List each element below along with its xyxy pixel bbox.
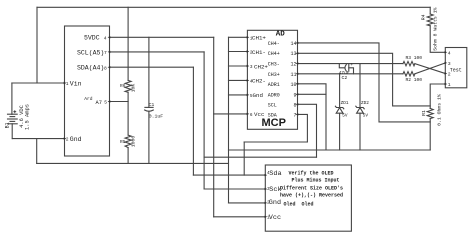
svg-text:10: 10 [291,82,297,88]
wire battery plus lead [11,83,13,114]
svg-text:Verify the OLED: Verify the OLED [289,170,334,176]
svg-text:Oled: Oled [302,202,314,208]
svg-text:R1: R1 [421,110,427,116]
svg-text:5ohm 8 Watts 1%: 5ohm 8 Watts 1% [432,7,438,50]
MCP pin 7 mark [296,113,299,115]
svg-text:5VDC: 5VDC [84,35,100,42]
MCP pin 11 mark [296,73,299,75]
wire CH4- sense [298,43,431,122]
wire Test pin1 to R1 [430,84,445,108]
svg-text:C2: C2 [342,75,348,81]
MCP pin 2 mark [247,50,250,52]
resistor R4 [427,14,433,26]
svg-text:SDA(A4): SDA(A4) [77,65,104,72]
MCP U2 box [247,30,297,129]
svg-text:MCP: MCP [262,117,286,129]
MCP pin 10 mark [296,83,299,85]
MCP pin 9 mark [296,93,299,95]
node labels: Arduino pins [66,35,108,143]
wire MCP pin2 stub [229,51,248,53]
svg-text:Gnd: Gnd [70,136,82,143]
MCP pin 1 mark [247,36,250,38]
svg-text:5: 5 [104,100,107,106]
svg-text:8: 8 [104,65,107,71]
wire C1 bottom lead [148,111,150,163]
node labels: MCP right pins [268,41,297,119]
svg-text:12: 12 [291,61,297,67]
svg-text:2: 2 [66,136,69,142]
MCP pin 12 mark [296,62,299,64]
wire Vin horizontal [12,82,65,84]
zener diode ZD1 [335,74,343,150]
zener diode ZD2 [356,64,364,150]
wire right common rail [229,149,431,151]
svg-text:CH4-: CH4- [268,41,280,47]
svg-text:CH3-: CH3- [268,61,280,67]
svg-text:Different Size OLED's: Different Size OLED's [280,185,343,191]
svg-text:SDA: SDA [268,112,277,118]
wire Vcc to OLED [214,216,266,218]
svg-text:Gnd: Gnd [253,92,263,99]
wire 5V vertical [213,37,215,217]
svg-text:ADR0: ADR0 [268,92,280,98]
svg-text:R3 100: R3 100 [406,55,423,61]
MCP pin 6 mark [247,113,250,115]
OLED pin 3 mark [265,188,268,190]
svg-text:Ard: Ard [84,96,93,102]
wire divider top [127,7,129,80]
wire CH4+ sense [298,53,431,106]
wire battery minus lead [11,124,13,139]
svg-text:Vcc: Vcc [254,111,265,118]
wire sense bundle vertical [228,37,230,203]
wire Gnd to OLED [229,202,266,204]
OLED pin 2 mark [265,202,268,204]
svg-text:13: 13 [291,51,297,57]
wire SCL return [204,156,316,158]
svg-text:10K: 10K [131,84,137,93]
resistor R6 [125,80,131,92]
svg-text:9: 9 [294,92,297,98]
Arduino pin 1 mark [64,82,67,84]
wire MCP SCL pin8 [298,104,317,157]
MCP pin 13 mark [296,52,299,54]
Test pin 3 mark [445,62,448,64]
svg-text:CH1+: CH1+ [252,35,266,42]
resistor R1 [427,108,433,118]
wire MCP ADR0 pin9 [298,93,327,95]
svg-text:AD: AD [276,31,286,39]
wire A7 to divider [110,101,129,103]
svg-text:A7: A7 [96,100,102,106]
svg-text:0.1uF: 0.1uF [149,113,164,119]
svg-text:CH2-: CH2- [252,78,266,85]
svg-text:ZD2: ZD2 [361,101,369,106]
svg-text:3: 3 [250,65,253,70]
svg-text:Plus Minus Input: Plus Minus Input [292,178,340,184]
resistor R2 [403,72,415,76]
svg-text:1000: 1000 [131,136,137,148]
svg-text:3: 3 [448,61,451,67]
resistor R3 [403,61,415,65]
wire SCL(A5) from Arduino pin 7 [110,51,205,53]
svg-text:Oled: Oled [284,202,296,208]
wire R5 to ground rail [127,148,129,164]
wire 5VDC from Arduino pin 4 [110,36,214,38]
svg-text:5V: 5V [363,113,369,118]
svg-text:0.1 Ohms 1%: 0.1 Ohms 1% [437,94,443,126]
MCP pin 3 mark [247,65,250,67]
resistor R5 [125,135,131,148]
svg-text:Vcc: Vcc [269,214,281,222]
MCP pin 14 mark [296,42,299,44]
Arduino pin 2 mark [64,137,67,139]
wire MCP SDA pin7 [298,114,308,142]
svg-text:11: 11 [291,72,297,78]
wire left drop from top rail to Vin node [36,7,38,83]
svg-text:1.5 Amps: 1.5 Amps [24,104,30,130]
OLED pin 4 mark [265,174,268,176]
svg-text:+: + [350,63,353,68]
node labels: OLED pins [267,170,282,222]
svg-text:R2 100: R2 100 [406,77,423,83]
wire MCP pin5 stub [229,94,248,96]
svg-text:SCL: SCL [268,102,277,108]
MCP pin 8 mark [296,103,299,105]
wire R4 to Test pin4 [430,26,445,53]
svg-text:CH2+: CH2+ [254,63,268,70]
node labels: MCP left pins [250,35,269,119]
svg-text:R5: R5 [120,139,126,145]
svg-text:ADR1: ADR1 [268,82,280,88]
svg-text:CH1-: CH1- [252,49,266,56]
Test pin 1 mark [445,83,448,85]
svg-text:ZD1: ZD1 [341,101,349,106]
wire MCP pin1 stub [229,36,248,38]
OLED J2 box [265,165,351,231]
svg-text:8: 8 [294,102,297,108]
wire SDA return [244,141,307,143]
Arduino pin 5 mark [108,100,111,102]
wire SDA vertical [192,67,194,175]
wire SDA(A4) from Arduino pin 8 [110,66,194,68]
svg-text:7: 7 [104,50,107,56]
svg-text:C1: C1 [149,102,155,108]
wire top rail [37,6,430,8]
wire 5V to MCP Vcc [214,113,248,115]
svg-text:have (+),(-) Reversed: have (+),(-) Reversed [280,192,343,198]
Test pin 2 mark [445,72,448,74]
label battery plus [13,110,16,113]
MCP pin 5 mark [247,94,250,96]
svg-text:R4: R4 [421,14,427,20]
wire R2 to Test pin3 [415,63,445,74]
Test J1 box [445,48,467,88]
wire SCL vertical [203,52,205,189]
svg-text:Vin: Vin [70,81,82,88]
svg-text:4: 4 [448,50,451,56]
svg-text:1: 1 [448,82,451,88]
svg-text:1: 1 [66,81,69,87]
wire CH3+ sense line [298,73,404,75]
svg-text:R6: R6 [120,83,126,89]
battery B1 [8,114,18,124]
wire R4 top lead [429,7,431,14]
svg-text:B1: B1 [5,122,11,128]
wire Sck to OLED [204,188,265,190]
Arduino U1 box [65,26,110,156]
wire Sda to OLED [193,174,265,176]
node labels: Test pins [448,50,451,88]
svg-text:CH4+: CH4+ [268,51,280,57]
capacitor C2 [339,64,353,74]
wire R3 to Test pin2 [415,64,445,74]
svg-text:5V: 5V [342,113,348,118]
wire MCP pin4 stub [229,79,248,81]
wire battery to Gnd pin [12,138,64,140]
wire C1 top lead [148,37,150,107]
svg-text:6: 6 [250,113,253,118]
Arduino pin 7 mark [108,51,111,53]
svg-text:7: 7 [294,112,297,118]
OLED pin 1 mark [265,216,268,218]
wire SDA return drop [243,142,245,175]
capacitor C1 [145,107,154,111]
wire MCP ADR1 pin10 [298,84,327,150]
MCP pin 4 mark [247,79,250,81]
Test pin 4 mark [445,51,448,53]
svg-text:Test: Test [450,68,462,74]
svg-text:CH3+: CH3+ [268,72,280,78]
wire R1 to rail [429,119,431,150]
Arduino pin 8 mark [108,66,111,68]
wire R6 to R5 [127,92,129,135]
svg-text:SCL(A5): SCL(A5) [77,49,104,56]
svg-text:Gnd: Gnd [269,199,281,207]
wire CH3- sense line [298,63,404,65]
svg-text:4: 4 [104,35,107,41]
svg-text:14: 14 [291,41,297,47]
svg-text:Sda: Sda [269,170,281,178]
wire gnd drop [36,139,38,164]
wire MCP pin3 stub [229,65,248,67]
wire ground rail [37,162,229,164]
Arduino pin 4 mark [108,36,111,38]
label OLED note [280,170,343,207]
